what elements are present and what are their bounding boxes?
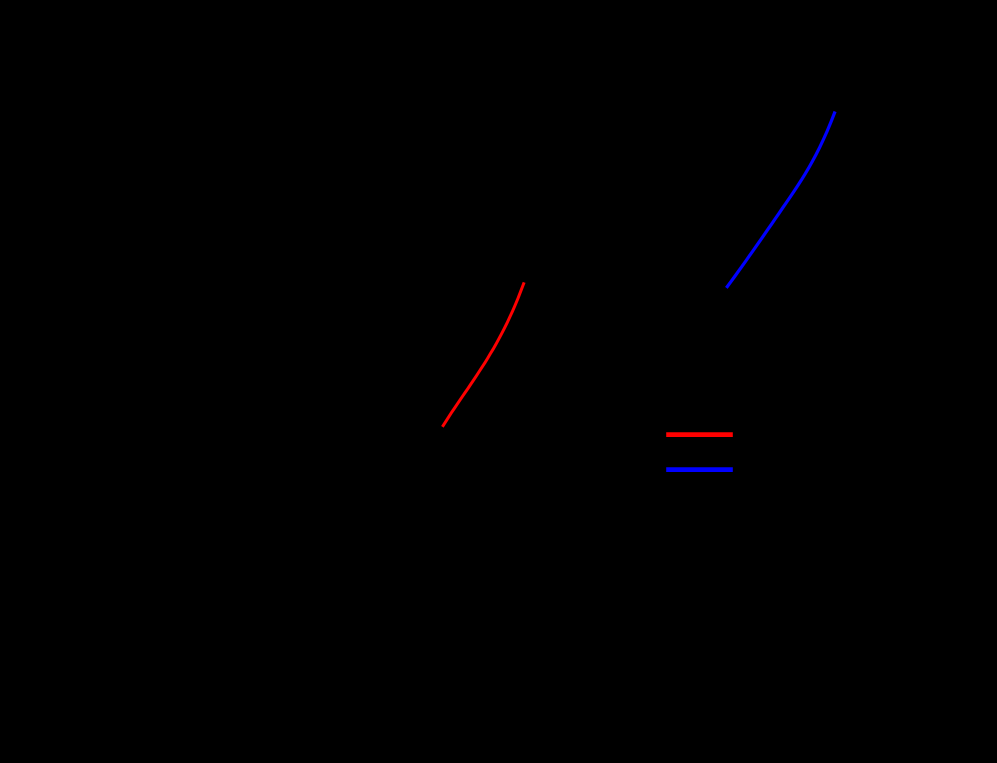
- blue exponential curve: [727, 113, 834, 287]
- red exponential curve: [443, 284, 523, 426]
- legend blue swatch: [666, 467, 733, 472]
- legend red swatch: [666, 432, 733, 437]
